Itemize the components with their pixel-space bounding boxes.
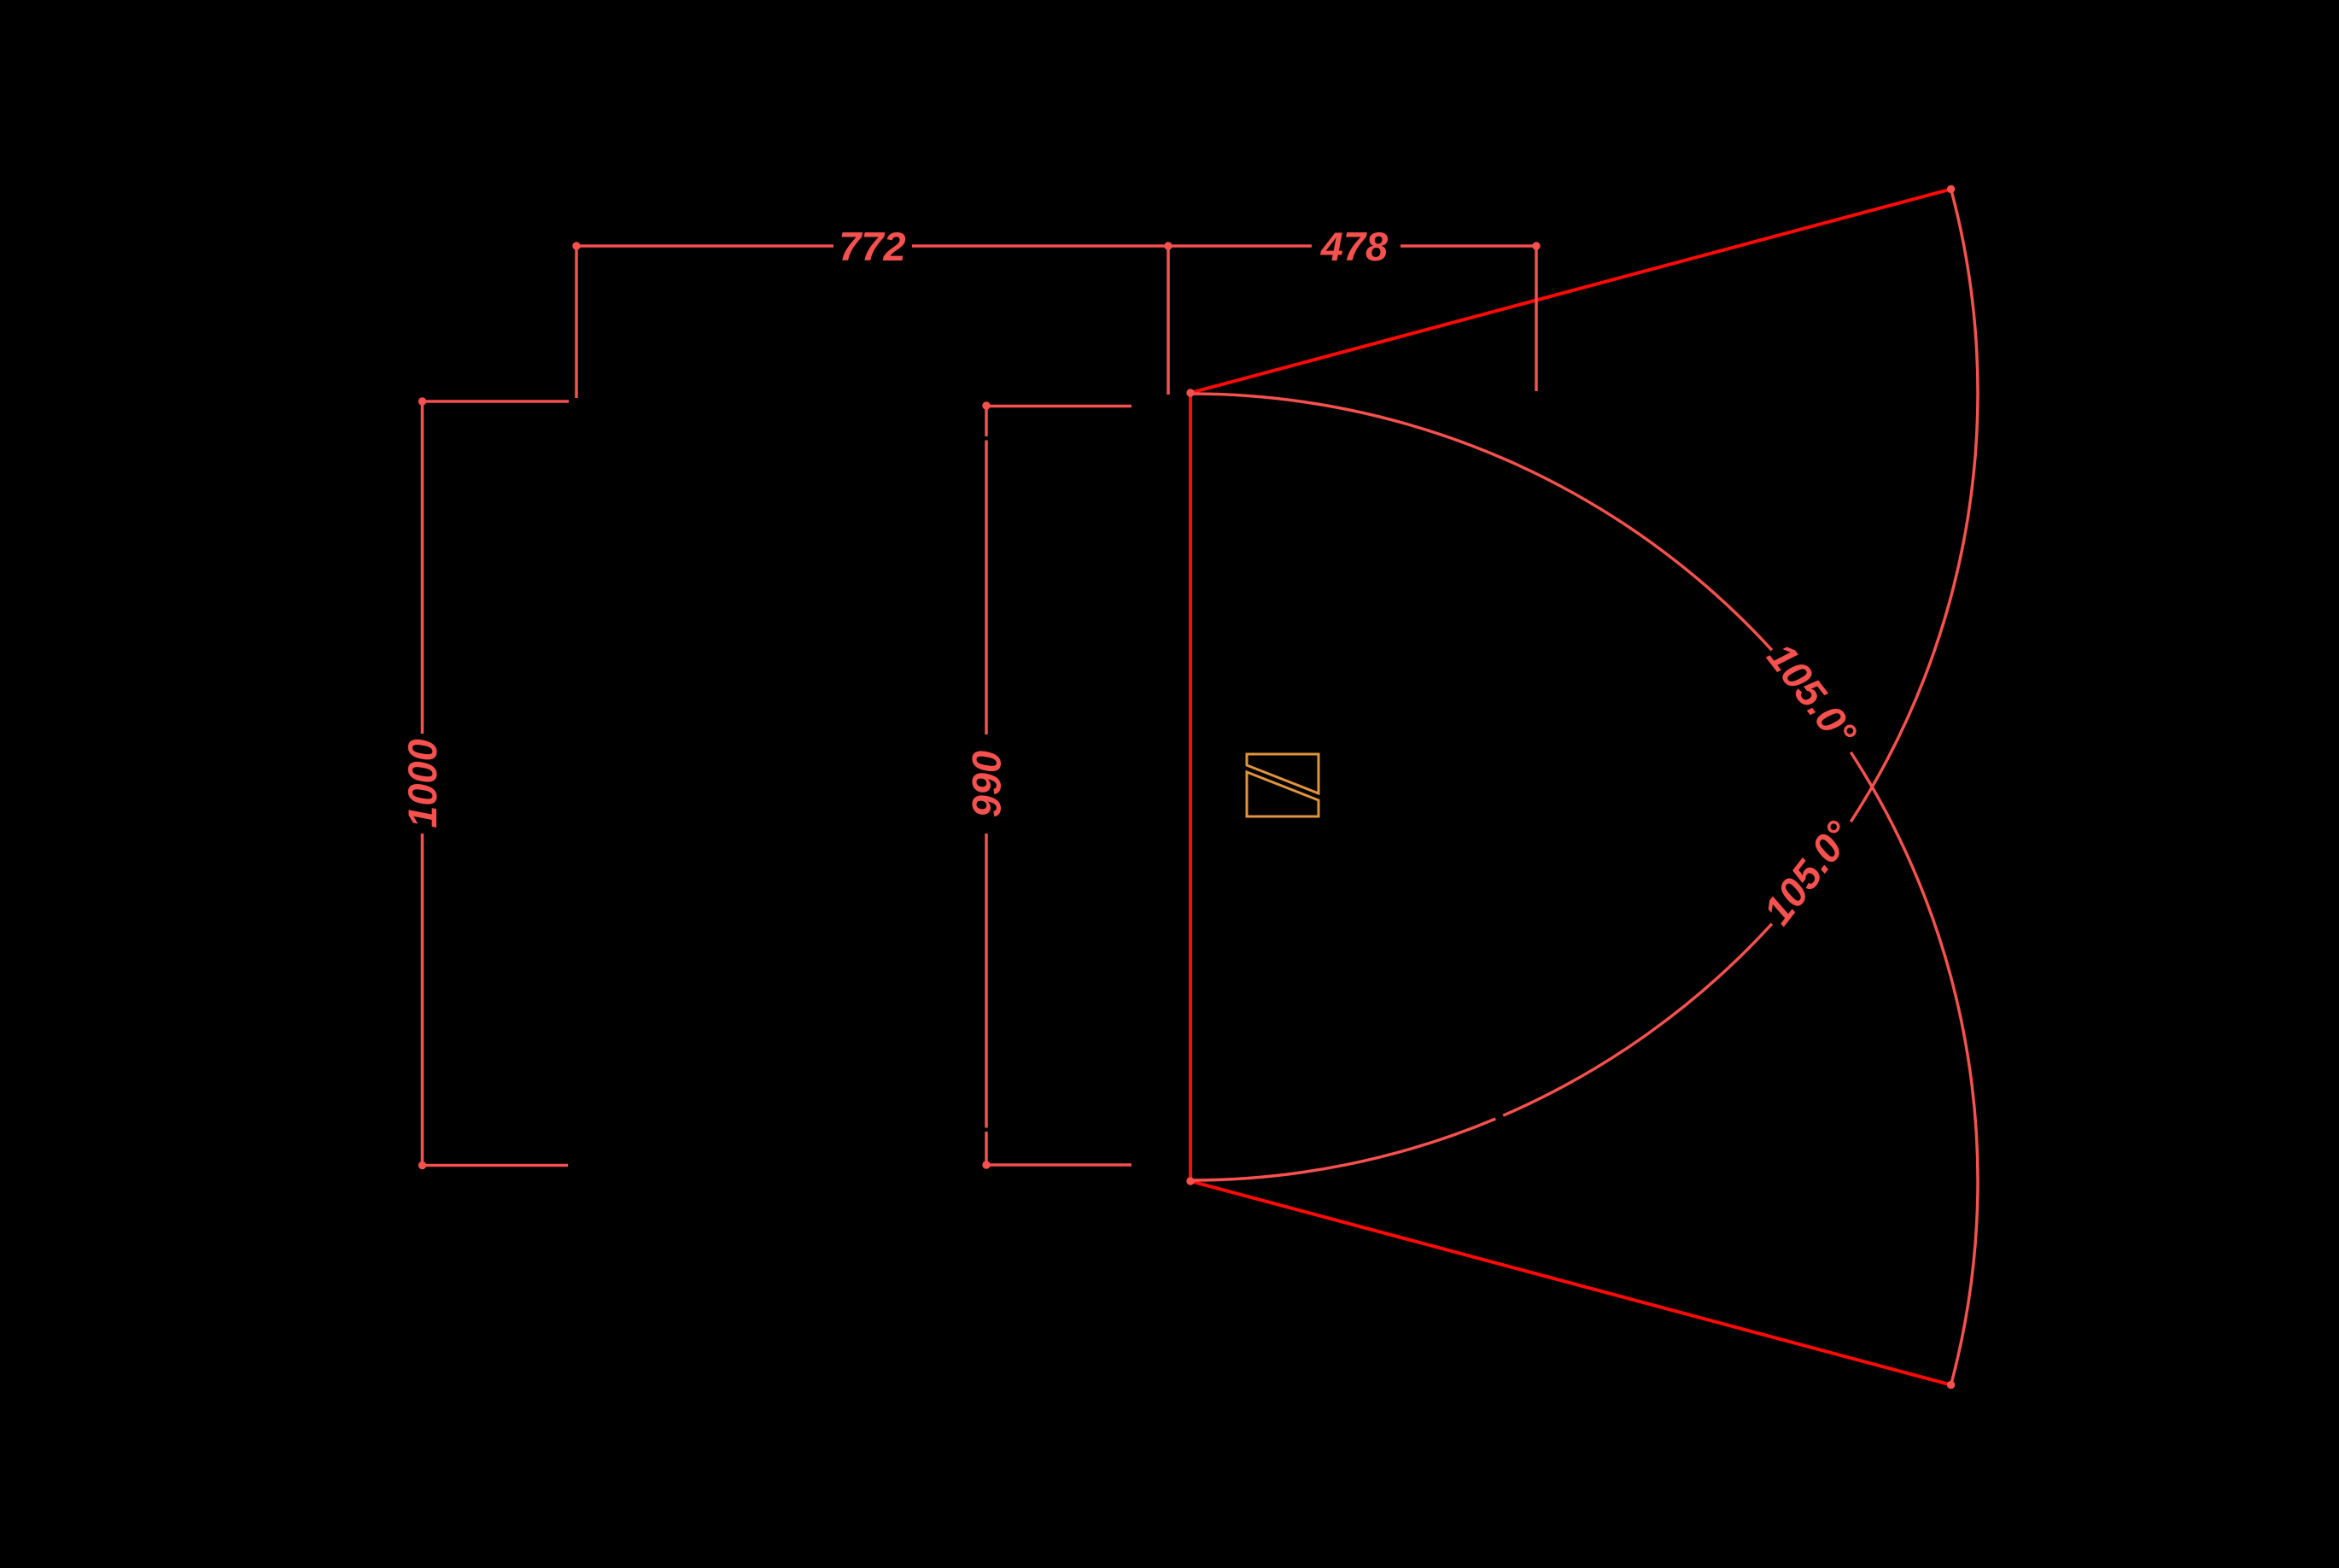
bottom hinge dot: [1186, 1177, 1194, 1185]
open tip dot upper: [1947, 185, 1955, 193]
extension line at 990 top: [986, 405, 1131, 408]
node dot 1000 top: [418, 397, 426, 405]
dimension line 990 lower segment: [985, 834, 988, 1128]
node dot 990 bottom: [982, 1161, 990, 1168]
dimension line 1000 lower segment: [421, 834, 424, 1166]
dimension line 990 upper stub: [985, 406, 988, 436]
node dot 990 top: [982, 401, 990, 409]
door open position upper: [1190, 189, 1951, 393]
swing arc 1 middle segment: [1503, 924, 1772, 1116]
extension line between 772 and 478: [1167, 246, 1170, 395]
dimension line 990 lower stub: [985, 1132, 988, 1165]
swing arc 2 lower segment: [1851, 752, 1978, 1385]
node dot 1000 bottom: [418, 1161, 426, 1169]
extension line at 1000 bottom: [423, 1164, 569, 1167]
svg-text:478: 478: [1320, 224, 1389, 269]
dimension line 990 upper segment: [985, 441, 988, 735]
top hinge dot: [1186, 389, 1194, 396]
swing arc 1 lower segment (centre top hinge): [1190, 1119, 1495, 1180]
open tip dot lower: [1947, 1381, 1955, 1389]
door leaf closed position: [1189, 393, 1192, 1181]
svg-text:1000: 1000: [400, 739, 445, 828]
extension line at 1000 top: [423, 400, 570, 403]
extension line at 478 right end: [1535, 246, 1538, 391]
node dot 772/478 junction: [1164, 242, 1172, 249]
extension line at 772 left end: [575, 246, 578, 398]
swing arc 2 upper segment (centre bottom hinge): [1190, 394, 1772, 650]
extension line at 990 bottom: [986, 1163, 1131, 1167]
swing arc 1 upper segment: [1851, 189, 1978, 822]
dimension line 478 right segment: [1400, 244, 1536, 248]
door symbol lower quad: [1247, 772, 1319, 816]
node dot 772 left: [572, 242, 580, 249]
svg-text:990: 990: [964, 751, 1009, 817]
dimension line 478 left segment: [1168, 244, 1312, 248]
door open position lower: [1190, 1181, 1951, 1385]
dimension line 772 right segment: [912, 244, 1168, 248]
svg-text:772: 772: [839, 224, 905, 269]
dimension line 1000 upper segment: [421, 401, 424, 734]
dimension line 772 left segment: [576, 244, 833, 248]
door symbol upper quad: [1247, 754, 1319, 793]
node dot 478 right: [1532, 242, 1540, 249]
